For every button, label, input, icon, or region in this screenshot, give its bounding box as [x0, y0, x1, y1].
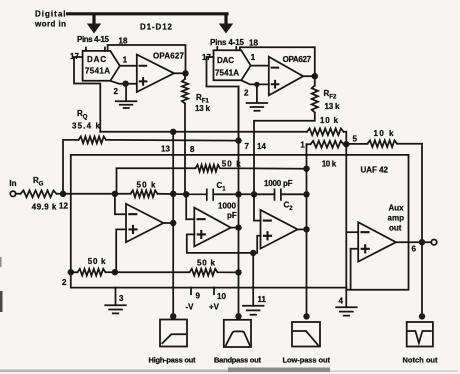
- DAC U2 pin 18 feedback wire: [240, 47, 315, 76]
- node summing: [112, 191, 118, 197]
- wire DAC U1 out2: [111, 81, 137, 84]
- node RQ-bandpass junction pin 7: [235, 137, 241, 143]
- node A5 output: [303, 226, 309, 232]
- resistor 50k feedback A1: [115, 190, 158, 197]
- node low-pass box top: [303, 313, 309, 319]
- svg-text:50 k: 50 k: [222, 160, 242, 169]
- svg-text:17: 17: [202, 53, 211, 62]
- bus arrow 1: [92, 15, 95, 24]
- node A6 output pin 6: [419, 239, 425, 245]
- DAC U1 pin 17 wire: [74, 57, 100, 132]
- svg-text:Low-pass out: Low-pass out: [283, 356, 331, 365]
- svg-text:10 k: 10 k: [374, 129, 395, 138]
- wire line C ground reference: [71, 154, 409, 156]
- svg-text:Notch out: Notch out: [403, 356, 439, 365]
- svg-text:1: 1: [251, 53, 256, 62]
- svg-text:10: 10: [217, 292, 226, 301]
- svg-text:1000: 1000: [218, 202, 237, 211]
- svg-text:4: 4: [339, 297, 344, 306]
- wire A5 output: [298, 228, 307, 230]
- DAC U1 7541A body: [83, 51, 120, 81]
- svg-text:Pins 4-15: Pins 4-15: [210, 38, 245, 47]
- svg-text:-V: -V: [186, 303, 195, 312]
- svg-text:pF: pF: [227, 211, 237, 220]
- resistor RQ 35.4k: [79, 137, 107, 144]
- svg-text:amp: amp: [388, 214, 405, 223]
- node bandpass box top: [235, 313, 241, 319]
- node 12: [60, 191, 66, 197]
- svg-text:35.4 k: 35.4 k: [72, 122, 101, 131]
- svg-text:13 k: 13 k: [325, 102, 341, 111]
- node op-amp A2 output: [312, 73, 318, 79]
- svg-text:12: 12: [59, 202, 68, 211]
- wire line C down to node 2: [70, 155, 72, 288]
- svg-text:14: 14: [257, 142, 266, 151]
- main signal line y194: [63, 193, 307, 196]
- svg-text:2: 2: [244, 89, 249, 98]
- node 50k pair junction: [112, 269, 118, 275]
- bus arrow 2: [224, 15, 227, 24]
- node high-pass box top: [170, 313, 176, 319]
- op-amp A2 OPA627: [269, 57, 303, 96]
- resistor RG 49.9k: [16, 190, 63, 197]
- svg-text:DAC: DAC: [87, 55, 106, 64]
- DAC U2 7541A body: [214, 50, 251, 80]
- resistor 10k right: [346, 140, 422, 147]
- svg-text:2: 2: [114, 87, 119, 96]
- svg-text:10 k: 10 k: [320, 116, 339, 125]
- wire common to ground 11: [252, 253, 254, 306]
- op-amp A4 bandpass integrator: [194, 208, 231, 247]
- svg-text:2: 2: [62, 278, 67, 287]
- DAC U2 pin 17 wire: [207, 57, 239, 141]
- resistor 50k to low-pass line: [117, 165, 307, 194]
- svg-text:5: 5: [353, 135, 358, 144]
- svg-text:50 k: 50 k: [88, 257, 106, 266]
- svg-text:out: out: [389, 224, 402, 233]
- wire A6 noninverting input to box bottom: [351, 249, 359, 290]
- svg-text:Pins 4-15: Pins 4-15: [77, 35, 110, 44]
- svg-text:Aux: Aux: [389, 204, 405, 213]
- svg-text:50 k: 50 k: [137, 181, 157, 190]
- low-pass response curve: [294, 331, 318, 345]
- svg-text:9: 9: [196, 292, 201, 301]
- node A1 out top: [170, 191, 176, 197]
- DAC U1 pin 18 feedback wire: [108, 45, 186, 73]
- wire A3 output: [163, 222, 173, 224]
- svg-text:7: 7: [245, 142, 250, 151]
- node A3 output: [170, 220, 176, 226]
- wire A4 output: [231, 227, 239, 229]
- svg-text:D1-D12: D1-D12: [140, 23, 173, 32]
- pin 4 ground stub: [345, 290, 347, 307]
- bottom ground wire: [71, 287, 347, 289]
- UAF42 box: [346, 155, 408, 290]
- svg-text:6: 6: [412, 245, 417, 254]
- resistor 50k node2 to summing: [71, 269, 115, 276]
- node 2: [68, 269, 74, 275]
- ground G2 under DAC U2: [247, 87, 268, 110]
- notch response curve: [408, 331, 431, 343]
- node A4 output: [235, 224, 241, 230]
- wire A6 output: [396, 241, 431, 243]
- node DAC U2 out2 junction: [254, 82, 259, 87]
- svg-text:18: 18: [119, 37, 128, 46]
- high-pass output box: [160, 320, 187, 347]
- notch output box: [407, 322, 433, 347]
- pin 10 stub: [213, 288, 215, 295]
- svg-text:17: 17: [70, 52, 79, 61]
- wire A3 noninverting input: [116, 229, 126, 272]
- wire A5 inverting input: [254, 194, 261, 220]
- wire DAC U2 out2: [242, 80, 269, 84]
- wire 10k upper to node 5: [344, 132, 347, 144]
- high-pass response curve: [162, 334, 185, 343]
- wire A4 noninverting input: [187, 234, 253, 253]
- resistor 10k upper: [307, 128, 344, 135]
- svg-text:OPA627: OPA627: [283, 55, 312, 64]
- wire A5 noninverting input: [253, 236, 260, 253]
- op-amp A6 aux amp: [358, 222, 396, 261]
- resistor RF1 13k: [182, 73, 188, 194]
- svg-text:11: 11: [258, 295, 267, 304]
- capacitor C2 1000pF: [254, 189, 307, 200]
- low-pass output box: [292, 322, 320, 347]
- node C1 left: [183, 191, 189, 197]
- bandpass response curve: [226, 331, 250, 345]
- ground G1 under DAC U1: [116, 87, 137, 108]
- svg-text:High-pass out: High-pass out: [149, 356, 197, 365]
- wire node5 into box: [345, 144, 347, 155]
- wire A4 inverting input: [186, 194, 194, 219]
- wire A6 inverting input from pin 5: [346, 231, 358, 233]
- svg-text:8: 8: [190, 145, 195, 154]
- node C1 right: [235, 191, 241, 197]
- resistor 10k lower: [307, 141, 347, 148]
- svg-text:In: In: [9, 179, 16, 188]
- node DAC U1 out2 junction: [122, 81, 128, 87]
- pin 3 stub: [115, 288, 117, 306]
- bandpass output box: [224, 320, 251, 347]
- DAC U1 pin ticks 4-15: [86, 48, 105, 51]
- svg-text:7541A: 7541A: [85, 67, 110, 76]
- node high-pass to line A pin 13: [170, 129, 176, 135]
- svg-text:13: 13: [161, 145, 170, 154]
- svg-text:1: 1: [300, 141, 305, 150]
- node C2 right pin 14 line: [303, 191, 309, 197]
- ground G3: [105, 305, 126, 313]
- node 5: [343, 141, 349, 147]
- svg-text:18: 18: [249, 39, 258, 48]
- wire bandpass vertical pin 7: [238, 87, 240, 317]
- svg-text:+V: +V: [209, 303, 220, 312]
- svg-text:OPA627: OPA627: [153, 52, 185, 61]
- resistor RQ 35.4k wire from node 12 up: [63, 140, 79, 194]
- svg-text:7541A: 7541A: [215, 69, 239, 78]
- wire RQ to bandpass node: [106, 139, 239, 142]
- wire DAC U2 out1 to op-amp: [251, 65, 269, 67]
- wire A3 inverting input: [115, 194, 126, 214]
- wire aux output vertical: [421, 144, 423, 317]
- svg-text:49.9 k: 49.9 k: [32, 203, 57, 212]
- op-amp A1 OPA627: [137, 55, 174, 93]
- svg-text:10 k: 10 k: [322, 160, 337, 169]
- node bandpass 50k junction: [235, 269, 241, 275]
- svg-text:word in: word in: [34, 20, 66, 29]
- resistor 50k to bandpass: [115, 269, 239, 276]
- node notch box top: [419, 313, 425, 319]
- node op-amp A1 output: [182, 70, 188, 76]
- svg-text:50 k: 50 k: [197, 259, 216, 268]
- svg-text:Digital: Digital: [35, 10, 66, 19]
- svg-text:1: 1: [123, 56, 128, 65]
- pin 9 stub: [190, 288, 192, 295]
- svg-text:3: 3: [119, 294, 124, 303]
- ground G11: [243, 306, 264, 315]
- node 50k low-pass junction: [303, 166, 309, 172]
- DAC U2 pin ticks 4-15: [217, 47, 236, 50]
- op-amp A3 high-pass: [126, 204, 163, 242]
- svg-text:1000 pF: 1000 pF: [264, 179, 293, 188]
- svg-text:Bandpass out: Bandpass out: [214, 356, 262, 365]
- node C2 left: [251, 191, 257, 197]
- scan artifact left edge dash: [0, 291, 3, 312]
- svg-text:UAF 42: UAF 42: [361, 166, 389, 175]
- output terminal: [431, 240, 436, 245]
- op-amp A5 low-pass integrator: [261, 210, 298, 249]
- input terminal In: [10, 191, 15, 196]
- svg-text:13 k: 13 k: [195, 104, 211, 113]
- node noninverting common: [250, 250, 256, 256]
- scan artifact bottom smear: [0, 370, 330, 373]
- capacitor C1 1000pF: [186, 189, 238, 200]
- digital input bus: [68, 12, 228, 15]
- resistor RF2 13k: [254, 76, 318, 194]
- wire line A from DAC1 pin17 to 10k: [100, 131, 307, 133]
- wire low-pass vertical pin 1: [306, 144, 308, 316]
- svg-text:DAC: DAC: [217, 56, 234, 65]
- ground G4: [336, 307, 357, 315]
- wire high-pass vertical pin 13: [172, 132, 174, 316]
- wire DAC U1 out1 to op-amp: [120, 65, 137, 67]
